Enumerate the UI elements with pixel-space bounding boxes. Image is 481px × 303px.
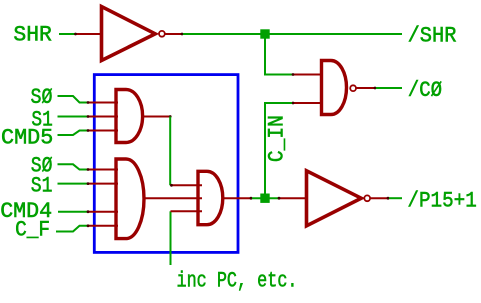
gate3 U5 pin A — [170, 184, 202, 186]
inverter U1 input pin — [74, 33, 101, 36]
svg-text:S1: S1 — [31, 174, 53, 199]
inverter U6 output pin — [371, 197, 390, 200]
gate2 U4 pin D — [87, 224, 118, 227]
wire CMD5 to gate1 input C — [58, 131, 88, 136]
svg-text:/SHR: /SHR — [408, 23, 457, 48]
junction node top — [260, 29, 269, 38]
nand U2 output pin — [356, 87, 376, 90]
gate1 U3 pin C — [87, 129, 118, 132]
gate1 U3 pin A — [87, 101, 118, 104]
wire inverter output to /P15+1 — [389, 197, 402, 199]
wire SHR to inverter — [59, 33, 75, 35]
wire junction down to NAND top input — [265, 39, 292, 75]
wire inc PC vertical to gate3 input C — [170, 211, 172, 265]
gate2 U4 pin A — [87, 168, 118, 171]
wire S1 to gate2 input B — [58, 183, 88, 185]
gate3 U5 output pin — [224, 197, 253, 200]
box (sheet outline) — [94, 75, 238, 253]
wire gate3 output to junction — [252, 197, 278, 199]
wire S0 to gate2 input A — [58, 164, 88, 169]
nand U2 bottom input pin — [292, 102, 322, 105]
svg-text:inc PC, etc.: inc PC, etc. — [177, 269, 298, 294]
wire S1 to gate1 input B — [58, 116, 88, 118]
wire nand output to /C0 — [376, 87, 402, 89]
svg-text:CMD5: CMD5 — [1, 125, 53, 150]
nand U2 top input pin — [292, 73, 322, 76]
inverter U6 — [307, 171, 371, 226]
nand U2 — [322, 61, 357, 115]
svg-text:/P15+1: /P15+1 — [407, 188, 476, 213]
gate3 U5 pin C — [171, 210, 203, 212]
and gate U5 — [198, 171, 223, 224]
wire C_IN vertical — [265, 103, 292, 194]
svg-text:C_IN: C_IN — [265, 115, 290, 162]
and gate U4 — [116, 159, 144, 239]
gate1 U3 output pin + wire down to gate3 input A — [144, 116, 171, 118]
inverter U6 input pin — [278, 197, 307, 200]
svg-text:/CØ: /CØ — [408, 78, 442, 103]
wire C_F to gate2 input D — [56, 226, 87, 232]
inverter U1 output pin — [165, 33, 183, 36]
wire inverter output to /SHR — [183, 33, 402, 35]
svg-text:SØ: SØ — [31, 85, 53, 110]
wire S0 to gate1 input A — [58, 96, 88, 103]
wire CMD4 to gate2 input C — [58, 211, 87, 213]
inverter U1 — [102, 7, 165, 61]
gate2 U4 pin B — [87, 182, 118, 185]
svg-text:C_F: C_F — [15, 218, 50, 243]
gate2 U4 output pin to gate3 input B — [144, 197, 202, 199]
svg-text:SHR: SHR — [13, 23, 52, 48]
gate2 U4 pin C — [87, 210, 118, 213]
junction node bottom — [260, 194, 269, 203]
and gate U3 — [116, 90, 143, 143]
gate1 U3 pin B — [87, 115, 118, 118]
wire gate1 output elbow — [169, 117, 171, 186]
